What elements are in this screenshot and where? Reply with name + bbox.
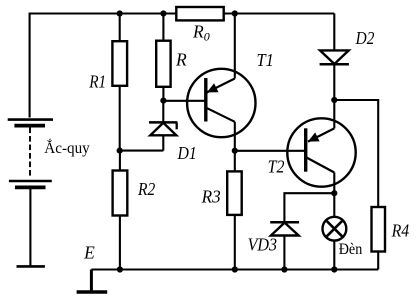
wire T2 base <box>235 150 306 152</box>
wire R bottom lead <box>162 87 164 101</box>
svg-text:R: R <box>175 50 187 70</box>
svg-text:T1: T1 <box>257 50 274 70</box>
wire lamp top lead <box>333 193 335 217</box>
resistor R0 <box>176 7 223 20</box>
battery cell 2 short plate <box>15 185 46 189</box>
wire R1 bottom lead <box>119 86 121 151</box>
battery cell 1 short plate <box>14 124 45 128</box>
wire battery negative lead <box>29 187 31 266</box>
resistor R4 <box>372 207 386 252</box>
svg-text:E: E <box>83 243 95 263</box>
node lamp bottom on ground rail <box>331 266 337 272</box>
wire T1 base <box>163 100 205 102</box>
wire bottom ground rail <box>91 268 378 270</box>
svg-text:Ắc-quy: Ắc-quy <box>44 138 90 157</box>
svg-text:VD3: VD3 <box>248 235 278 255</box>
wire T1 collector down <box>234 122 236 151</box>
wire top rail and battery positive riser <box>30 14 335 118</box>
node R2 bottom on ground rail <box>117 266 123 272</box>
node R D1 T1-base junction <box>160 98 166 104</box>
wire R3 bottom lead <box>234 215 236 270</box>
wire VD3 anode lead <box>283 236 285 270</box>
node D2 T2-emitter R4 junction <box>331 97 337 103</box>
wire R3 top lead <box>234 151 236 172</box>
wire battery internal dashed <box>29 128 31 178</box>
resistor R <box>156 41 170 87</box>
svg-text:R1: R1 <box>88 72 106 92</box>
svg-text:T2: T2 <box>268 157 285 177</box>
node R3 bottom on ground rail <box>232 266 238 272</box>
svg-text:D1: D1 <box>177 143 197 163</box>
battery cell 1 long plate <box>8 118 53 121</box>
wire T2 collector down <box>333 173 335 194</box>
battery cell 2 long plate <box>9 180 52 183</box>
wire D1 cathode lead <box>162 101 164 123</box>
node T1 collector T2 base R3 junction <box>232 148 238 154</box>
wire T1 emitter to top rail <box>234 14 236 79</box>
transistor T2 <box>287 118 355 186</box>
resistor R3 <box>227 171 242 215</box>
wire R2 bottom lead <box>119 216 121 270</box>
node VD3 bottom on ground rail <box>281 266 287 272</box>
wire R4 bottom lead <box>377 252 379 270</box>
wire R top lead <box>162 14 164 41</box>
resistor R1 <box>112 41 127 86</box>
wire collector junction to VD3 <box>284 193 334 222</box>
svg-text:D2: D2 <box>355 28 375 48</box>
wire R2 top lead <box>119 151 121 171</box>
wire T2 emitter up <box>333 100 335 128</box>
node R1 R2 D1 junction <box>117 148 123 154</box>
wire junction to R4 top <box>334 100 378 207</box>
svg-text:Đèn: Đèn <box>339 241 363 258</box>
ground symbol <box>77 270 108 293</box>
lamp Den <box>323 217 347 241</box>
diode D1 zener <box>149 122 177 135</box>
svg-text:R4: R4 <box>391 220 410 240</box>
node top rail at R <box>160 10 166 16</box>
wire R1 top lead <box>119 14 121 42</box>
wire D2 cathode lead <box>333 64 335 100</box>
resistor R2 <box>113 171 128 216</box>
wire lamp bottom lead <box>333 241 335 270</box>
wire D1 anode lead <box>162 135 164 150</box>
wire D2 top lead <box>333 14 335 51</box>
diode D2 <box>320 50 349 64</box>
node top rail at T1 emitter <box>232 10 238 16</box>
transistor T1 <box>187 69 255 137</box>
svg-text:R2: R2 <box>137 179 155 199</box>
node top rail at R1 <box>117 10 123 16</box>
node T2 collector junction <box>331 190 337 196</box>
battery negative terminal bar <box>17 265 45 268</box>
svg-text:R3: R3 <box>201 187 221 207</box>
wire junction to D1 anode <box>120 150 164 152</box>
diode VD3 <box>270 222 299 235</box>
